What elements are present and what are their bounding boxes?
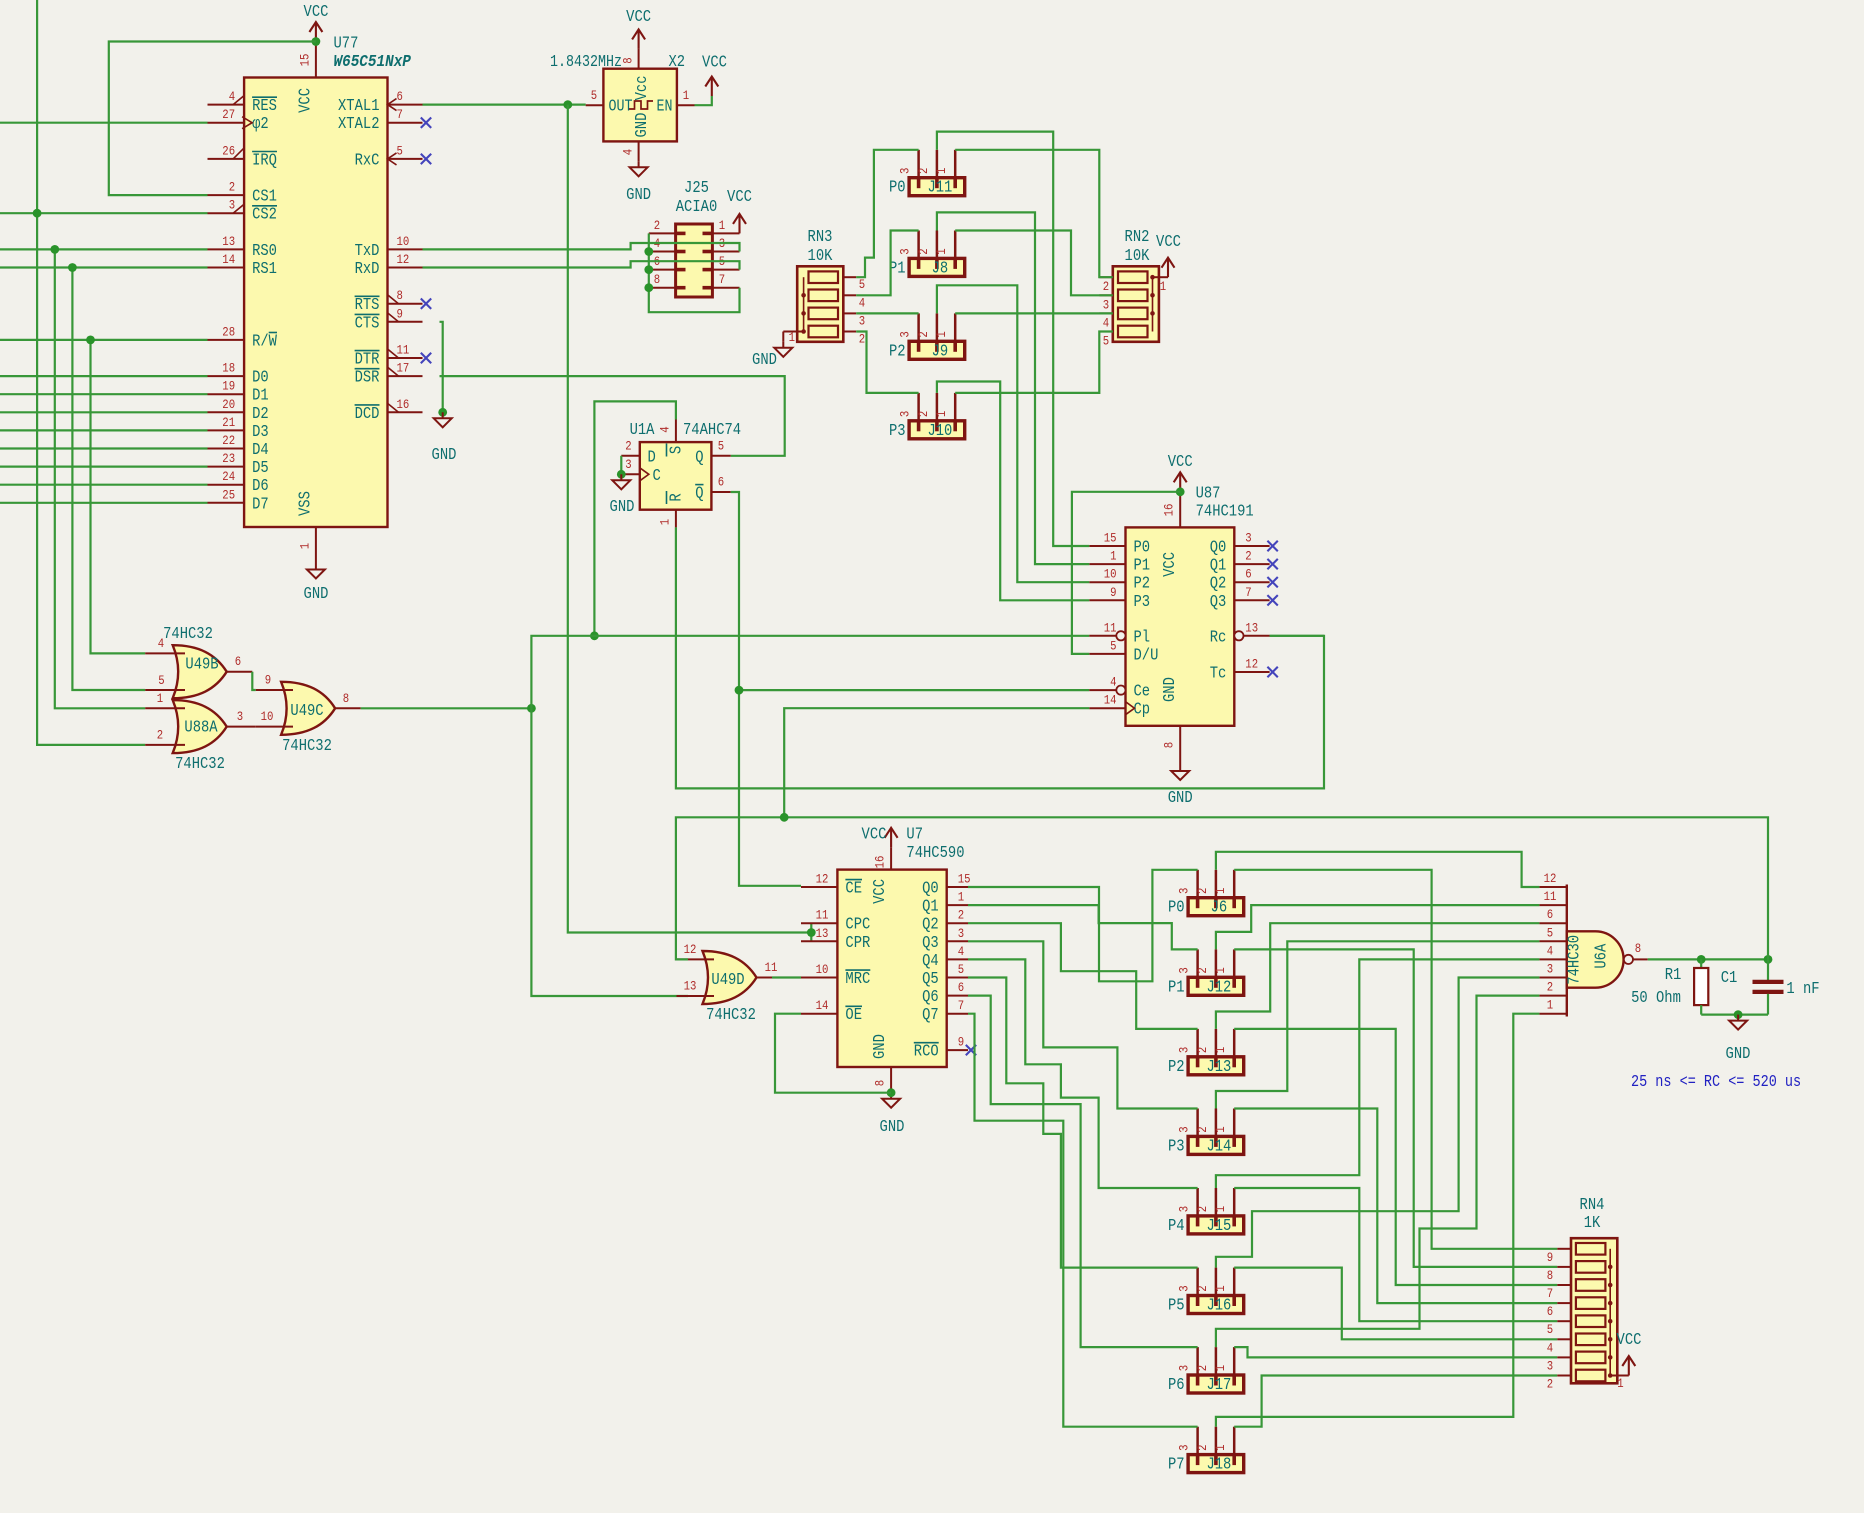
- J8 pin 2: [936, 231, 939, 259]
- junction Cp branch: [780, 813, 789, 822]
- svg-text:25: 25: [222, 487, 235, 502]
- svg-text:11: 11: [816, 908, 829, 923]
- svg-text:P0: P0: [1168, 898, 1185, 917]
- U87 pin 12 Tc: [1234, 671, 1269, 673]
- U49D pin 12 input: [677, 958, 715, 960]
- junction RS1: [68, 263, 77, 272]
- svg-text:2: 2: [1195, 1206, 1210, 1212]
- svg-text:7: 7: [1245, 585, 1251, 600]
- svg-text:Pl: Pl: [1134, 627, 1151, 646]
- U77 pin 1 VSS: [315, 527, 317, 564]
- J14 pin 2: [1215, 1109, 1218, 1137]
- power VCC at X2 EN: [705, 77, 718, 97]
- wire X2 EN to VCC: [695, 96, 712, 105]
- wire U7 Q2 to J13 pin3: [968, 923, 1198, 1029]
- U88A pin 2 input: [145, 744, 185, 746]
- J17 pin 2: [1215, 1347, 1218, 1375]
- RN4 pin 7: [1557, 1284, 1571, 1286]
- svg-text:13: 13: [1245, 620, 1258, 635]
- svg-text:50 Ohm: 50 Ohm: [1631, 988, 1681, 1007]
- svg-text:2: 2: [1103, 279, 1109, 294]
- svg-text:2: 2: [1547, 980, 1553, 995]
- J10 pin 2: [936, 393, 939, 421]
- RN4 resistor element 1: [1576, 1243, 1606, 1255]
- svg-text:2: 2: [916, 168, 931, 174]
- RN3 pin 1 to GND: [783, 331, 803, 333]
- U77 pin 10 TxD: [388, 248, 423, 250]
- svg-text:21: 21: [222, 415, 235, 430]
- nand-gate U6A 74HC30 body: [1567, 931, 1624, 987]
- svg-text:1K: 1K: [1584, 1213, 1601, 1232]
- svg-text:GND: GND: [610, 497, 635, 516]
- junction U77 VCC: [312, 37, 321, 46]
- junction CS2: [33, 209, 42, 218]
- svg-text:7: 7: [397, 107, 403, 122]
- RN3 pin 5: [843, 276, 856, 278]
- svg-text:1: 1: [1213, 1206, 1228, 1213]
- svg-text:74HC32: 74HC32: [163, 624, 213, 643]
- svg-text:CPC: CPC: [845, 915, 870, 934]
- U6A pin 12 input: [1539, 886, 1566, 888]
- svg-text:1: 1: [1213, 1444, 1228, 1451]
- svg-text:MRC: MRC: [845, 969, 870, 988]
- U88A pin 1 input: [145, 707, 185, 709]
- U77 pin 22 D4: [208, 448, 245, 450]
- X2 square-wave glyph: [629, 101, 653, 109]
- RN3 resistor element 4: [809, 326, 839, 338]
- J12 pin 1: [1233, 949, 1236, 977]
- wire RS0 row: [0, 248, 208, 250]
- svg-text:CS2: CS2: [252, 205, 277, 224]
- U77 pin 27 phi2: [208, 122, 245, 124]
- svg-text:1: 1: [934, 167, 949, 174]
- wire U1A S to Pl net: [594, 401, 676, 635]
- svg-text:R: R: [667, 493, 686, 501]
- svg-text:GND: GND: [626, 185, 651, 204]
- J16 pin 2: [1215, 1268, 1218, 1296]
- svg-text:1: 1: [1213, 887, 1228, 894]
- U87 pin 8 GND: [1179, 726, 1181, 765]
- ground at RN3 pin1: [774, 342, 792, 357]
- no-connect RTS: [421, 299, 431, 309]
- wire U7 Q7 to J18 pin3: [968, 1014, 1198, 1427]
- wire D1: [0, 393, 208, 395]
- svg-text:VCC: VCC: [626, 7, 651, 26]
- wire U1A D C to GND: [620, 456, 622, 475]
- ground at RC filter: [1729, 1015, 1747, 1030]
- U87 pin 6 Q2: [1234, 581, 1269, 583]
- U77 pin 3 CS2: [208, 212, 245, 214]
- svg-text:12: 12: [1245, 657, 1258, 672]
- svg-text:5: 5: [718, 439, 724, 454]
- svg-text:6: 6: [1245, 567, 1251, 582]
- svg-text:3: 3: [1177, 1206, 1192, 1212]
- svg-text:3: 3: [1177, 1285, 1192, 1291]
- svg-text:U88A: U88A: [184, 718, 217, 737]
- U87 pin 14 Cp: [1089, 707, 1125, 709]
- U77 pin 28 R/W: [208, 339, 245, 341]
- svg-text:3: 3: [898, 248, 913, 254]
- or-gate U88A 74HC32: [173, 700, 227, 753]
- svg-text:GND: GND: [752, 350, 777, 369]
- wire RxD to J25 pin5: [423, 261, 740, 269]
- X2 pin 8 Vcc: [638, 49, 640, 69]
- wire DCD to GND: [440, 411, 443, 413]
- or-gate U49B 74HC32: [173, 645, 227, 698]
- svg-text:2: 2: [1195, 1365, 1210, 1371]
- counter U7 74HC590 body: [837, 870, 946, 1067]
- svg-text:2: 2: [1195, 1285, 1210, 1291]
- svg-text:D0: D0: [252, 368, 269, 387]
- svg-text:2: 2: [1245, 549, 1251, 564]
- junction DCD-CTS-GND: [438, 408, 447, 417]
- svg-text:U49D: U49D: [711, 970, 744, 989]
- svg-text:1.8432MHz: 1.8432MHz: [550, 52, 622, 71]
- svg-text:3: 3: [859, 313, 865, 328]
- svg-text:P1: P1: [1168, 977, 1185, 996]
- J25 pin 1: [712, 232, 739, 234]
- junction J25 pin8: [644, 283, 653, 292]
- junction U7 GND-OE: [887, 1088, 896, 1097]
- U77 pin 14 RS1: [208, 267, 245, 269]
- jumper J14 P3: [1188, 1136, 1244, 1154]
- U49D pin 13 input: [677, 995, 715, 997]
- U49C pin 10 input: [256, 726, 293, 728]
- U49B pin 4 input: [145, 652, 185, 654]
- svg-text:GND: GND: [304, 584, 329, 603]
- wire output net up and to Cp/U49D: [676, 817, 1768, 959]
- svg-text:2: 2: [916, 411, 931, 417]
- wire U7 Q1 to J12 pin3: [968, 905, 1198, 949]
- junction U87 VCC: [1176, 487, 1185, 496]
- svg-text:4: 4: [229, 89, 236, 104]
- svg-text:10: 10: [397, 234, 410, 249]
- wire U87 VCC to D/U: [1072, 492, 1180, 654]
- svg-text:2: 2: [1195, 1445, 1210, 1451]
- svg-text:Q4: Q4: [922, 951, 939, 970]
- svg-text:1: 1: [934, 331, 949, 338]
- RN2 pin 4: [1099, 312, 1113, 314]
- U7 pin 16 VCC: [890, 847, 892, 869]
- svg-text:U49C: U49C: [290, 701, 323, 720]
- RN4 pin 8: [1557, 1266, 1571, 1268]
- svg-text:J11: J11: [927, 178, 952, 197]
- J25 pin 2: [649, 232, 676, 234]
- svg-text:9: 9: [397, 306, 403, 321]
- svg-text:1: 1: [1617, 1376, 1624, 1391]
- U77 pin 23 D5: [208, 466, 245, 468]
- svg-text:C: C: [653, 466, 661, 485]
- J13 pin 1: [1233, 1029, 1236, 1057]
- svg-text:14: 14: [1104, 693, 1117, 708]
- svg-text:13: 13: [816, 926, 829, 941]
- svg-text:4: 4: [158, 636, 165, 651]
- svg-text:CTS: CTS: [355, 313, 380, 332]
- ground at U1A: [612, 474, 630, 489]
- U6A pin 1 input: [1539, 1013, 1566, 1015]
- RN2 resistor element 1: [1118, 271, 1148, 283]
- J18 pin 3: [1196, 1427, 1199, 1455]
- U6A pin 3 input: [1539, 977, 1566, 979]
- svg-text:Cp: Cp: [1134, 700, 1151, 719]
- svg-text:74HC191: 74HC191: [1196, 502, 1254, 521]
- U7 pin 2 Q2: [947, 922, 968, 924]
- svg-text:74HC32: 74HC32: [282, 736, 332, 755]
- svg-text:J16: J16: [1206, 1296, 1231, 1315]
- J6 pin 3: [1196, 870, 1199, 898]
- jumper J12 P1: [1188, 977, 1244, 995]
- J11 pin 2: [936, 150, 939, 178]
- svg-text:OE: OE: [845, 1005, 862, 1024]
- power VCC at U87: [1174, 472, 1187, 492]
- svg-text:U6A: U6A: [1592, 944, 1611, 969]
- svg-text:16: 16: [873, 856, 888, 869]
- RN3 pin 4: [843, 294, 856, 296]
- svg-text:D7: D7: [252, 494, 269, 513]
- svg-text:20: 20: [222, 397, 235, 412]
- ground at U77 VSS: [307, 564, 325, 579]
- svg-text:P0: P0: [889, 178, 906, 197]
- junction RS0: [50, 245, 59, 254]
- no-connect RxC: [421, 154, 431, 164]
- svg-text:1: 1: [1110, 549, 1117, 564]
- svg-text:3: 3: [625, 457, 631, 472]
- ground at U87 pin8: [1171, 765, 1189, 780]
- svg-text:Q2: Q2: [922, 915, 939, 934]
- wire CS2 net vertical to U88A: [37, 0, 145, 745]
- svg-text:9: 9: [265, 673, 271, 688]
- svg-text:8: 8: [1162, 742, 1177, 748]
- wire J8 pin2 to U87 P1: [937, 212, 1089, 564]
- connector J25 ACIA0 body: [676, 224, 713, 297]
- svg-text:U49B: U49B: [185, 655, 218, 674]
- svg-text:VCC: VCC: [870, 879, 889, 904]
- wire J10 pin2 to U87 P3: [937, 382, 1089, 601]
- svg-text:Q: Q: [695, 448, 703, 467]
- U87 pin 5 D/U: [1089, 653, 1125, 655]
- svg-text:74HC32: 74HC32: [175, 754, 225, 773]
- U87 pin 15 P0: [1089, 545, 1125, 547]
- svg-text:1: 1: [298, 543, 313, 550]
- power VCC at RN2: [1162, 258, 1175, 278]
- wire U49D out to U7 MRC: [772, 976, 801, 978]
- svg-text:2: 2: [1195, 1126, 1210, 1132]
- jumper J16 P5: [1188, 1296, 1244, 1314]
- svg-text:RN3: RN3: [808, 227, 833, 246]
- svg-text:18: 18: [222, 361, 235, 376]
- svg-text:D1: D1: [252, 386, 269, 405]
- J13 pin 3: [1196, 1029, 1199, 1057]
- U77 pin 5 RxC: [388, 158, 423, 160]
- wire D6: [0, 484, 208, 486]
- J25 pin 4: [649, 251, 676, 253]
- RN4 pin 2: [1557, 1375, 1571, 1377]
- svg-text:5: 5: [859, 277, 865, 292]
- RN4 pin 9: [1557, 1248, 1571, 1250]
- wire D3: [0, 429, 208, 431]
- svg-text:6: 6: [718, 475, 724, 490]
- svg-text:2: 2: [1195, 888, 1210, 894]
- svg-text:5: 5: [1103, 334, 1109, 349]
- RN4 resistor element 4: [1576, 1297, 1606, 1309]
- U7 pin 14 OE: [801, 1013, 837, 1015]
- wire CPC/CPR tie: [810, 923, 812, 941]
- svg-text:28: 28: [222, 324, 235, 339]
- J14 pin 1: [1233, 1109, 1236, 1137]
- svg-text:22: 22: [222, 433, 235, 448]
- svg-text:J10: J10: [927, 421, 952, 440]
- U77 pin 6 XTAL1: [388, 104, 423, 106]
- svg-text:DCD: DCD: [355, 404, 380, 423]
- U49D pin 11 output: [757, 977, 773, 979]
- U77 pin 9 CTS: [388, 321, 423, 323]
- svg-text:8: 8: [343, 691, 349, 706]
- wire J16 pin1 to RN4 pin4: [1234, 1268, 1557, 1340]
- svg-text:P6: P6: [1168, 1375, 1185, 1394]
- svg-text:1: 1: [1213, 1285, 1228, 1292]
- svg-text:D: D: [648, 448, 656, 467]
- svg-text:2: 2: [916, 331, 931, 337]
- svg-text:XTAL2: XTAL2: [338, 114, 380, 133]
- svg-text:VCC: VCC: [1160, 552, 1179, 577]
- svg-text:9: 9: [958, 1035, 964, 1050]
- U49B pin 6 output: [227, 671, 253, 673]
- svg-text:J25: J25: [684, 178, 709, 197]
- svg-text:3: 3: [237, 709, 243, 724]
- svg-text:1 nF: 1 nF: [1786, 979, 1819, 998]
- J25 pin 6: [649, 269, 676, 271]
- svg-text:J17: J17: [1206, 1375, 1231, 1394]
- J18 pin 2: [1215, 1427, 1218, 1455]
- svg-text:GND: GND: [1160, 677, 1179, 702]
- svg-text:GND: GND: [1726, 1044, 1751, 1063]
- wire X2 OUT net vertical to U7 CPC/CPR: [568, 105, 812, 933]
- J17 pin 3: [1196, 1347, 1199, 1375]
- svg-text:1: 1: [934, 410, 949, 417]
- wire VCC-to-CS1: [109, 42, 316, 196]
- svg-text:GND: GND: [432, 445, 457, 464]
- wire J18 pin2 to U6A pin1: [1216, 1014, 1540, 1427]
- jumper J17 P6: [1188, 1375, 1244, 1393]
- svg-text:4: 4: [958, 944, 965, 959]
- svg-text:9: 9: [1547, 1250, 1553, 1265]
- U6A pin 6 input: [1539, 922, 1566, 924]
- svg-text:7: 7: [719, 272, 725, 287]
- svg-text:8: 8: [1635, 941, 1641, 956]
- svg-text:14: 14: [816, 998, 829, 1013]
- resistor network RN2 10K: [1113, 266, 1159, 342]
- U87 pin 1 P1: [1089, 563, 1125, 565]
- wire J16 pin2 to U6A pin3: [1216, 978, 1540, 1268]
- svg-text:VCC: VCC: [702, 53, 727, 72]
- wire J12 pin2 to U6A pin11: [1216, 905, 1540, 949]
- U6A pin 8 output: [1624, 955, 1633, 964]
- J17 pin 1: [1233, 1347, 1236, 1375]
- svg-text:U87: U87: [1196, 484, 1221, 503]
- svg-text:4: 4: [1110, 675, 1117, 690]
- X2 pin 4 GND: [638, 141, 640, 161]
- svg-text:VCC: VCC: [727, 187, 752, 206]
- U77 pin 4 RES: [208, 104, 245, 106]
- U77 pin 18 D0: [208, 375, 245, 377]
- RN4 pin 4: [1557, 1338, 1571, 1340]
- RN4 pin 6: [1557, 1302, 1571, 1304]
- no-connect DTR: [421, 353, 431, 363]
- wire RC bottom to GND: [1701, 1013, 1768, 1015]
- wire J8 pin3 to RN3 pin4: [856, 231, 918, 296]
- wire CS2 row: [0, 212, 208, 214]
- RN4 resistor element 7: [1576, 1352, 1606, 1364]
- svg-text:XTAL1: XTAL1: [338, 96, 380, 115]
- svg-text:2: 2: [1195, 1047, 1210, 1053]
- svg-text:11: 11: [765, 960, 778, 975]
- RN4 pin 3: [1557, 1356, 1571, 1358]
- svg-text:P1: P1: [1134, 556, 1151, 575]
- svg-text:6: 6: [958, 980, 964, 995]
- J12 pin 2: [1215, 949, 1218, 977]
- U77 pin 25 D7: [208, 502, 245, 504]
- wire U7 OE to GND loop: [775, 1014, 891, 1093]
- svg-text:R/W: R/W: [252, 331, 277, 350]
- wire DSR to U1A Q: [440, 376, 785, 456]
- wire J25 ground loop pins 2-4-6-8-7: [649, 233, 740, 312]
- U87 pin 10 P2: [1089, 581, 1125, 583]
- wire U49C out to Pl/U49D net: [361, 707, 532, 709]
- svg-text:S: S: [667, 446, 686, 454]
- J16 pin 3: [1196, 1268, 1199, 1296]
- wire J15 pin1 to RN4 pin5: [1234, 1188, 1557, 1321]
- svg-text:3: 3: [1547, 1358, 1553, 1373]
- svg-text:D6: D6: [252, 476, 269, 495]
- RN4 resistor element 8: [1576, 1370, 1606, 1382]
- svg-text:1: 1: [157, 691, 164, 706]
- no-connect XTAL2: [421, 118, 431, 128]
- svg-text:2: 2: [157, 728, 163, 743]
- svg-text:J18: J18: [1206, 1455, 1231, 1474]
- svg-text:1: 1: [1547, 998, 1554, 1013]
- svg-text:17: 17: [397, 361, 410, 376]
- svg-text:RN4: RN4: [1580, 1195, 1605, 1214]
- J11 pin 1: [954, 150, 957, 178]
- J10 pin 1: [954, 393, 957, 421]
- wire RS0 branch to U88A input 1: [55, 249, 145, 708]
- flip-flop U1A 74AHC74 body: [640, 442, 712, 510]
- svg-text:6: 6: [397, 89, 403, 104]
- svg-text:8: 8: [621, 57, 636, 63]
- svg-text:8: 8: [654, 272, 660, 287]
- svg-text:3: 3: [1177, 1445, 1192, 1451]
- svg-text:26: 26: [222, 143, 235, 158]
- svg-text:J6: J6: [1211, 898, 1228, 917]
- svg-text:1: 1: [1160, 279, 1167, 294]
- svg-text:4: 4: [621, 149, 636, 156]
- svg-text:5: 5: [397, 143, 403, 158]
- wire J14 pin1 to RN4 pin6: [1234, 1109, 1557, 1304]
- svg-text:12: 12: [1544, 871, 1557, 886]
- svg-text:15: 15: [1104, 531, 1117, 546]
- svg-text:P3: P3: [889, 421, 906, 440]
- junction S-Pl net: [590, 631, 599, 640]
- svg-text:Q1: Q1: [1210, 556, 1227, 575]
- J16 pin 1: [1233, 1268, 1236, 1296]
- U77 pin 20 D2: [208, 411, 245, 413]
- svg-text:10: 10: [816, 962, 829, 977]
- svg-text:J9: J9: [932, 341, 949, 360]
- svg-text:RTS: RTS: [355, 295, 380, 314]
- op-amp U77 W65C51NxP body: [244, 78, 387, 528]
- RN3 resistor element 3: [809, 308, 839, 320]
- J6 pin 2: [1215, 870, 1218, 898]
